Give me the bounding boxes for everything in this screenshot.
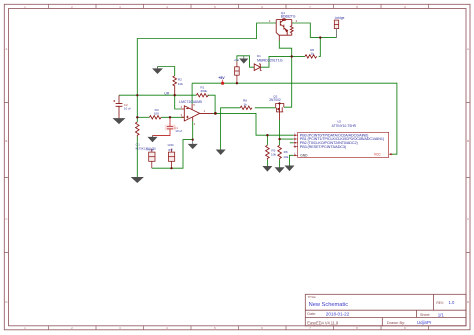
svg-text:B: B	[5, 139, 7, 143]
svg-text:-bridge: -bridge	[335, 16, 345, 20]
wire R8 to Q2 gate	[255, 107, 276, 109]
ground (backbone bottom)	[132, 178, 143, 183]
diode D1 MBRD320LT1G schottky	[254, 64, 261, 71]
svg-text:New Schematic: New Schematic	[309, 302, 349, 308]
svg-text:R6: R6	[284, 150, 288, 154]
ground (MCU GND)	[286, 166, 294, 170]
wire MCU GND pin to ground	[290, 155, 294, 166]
power flag +5V	[218, 76, 225, 85]
svg-text:1/1: 1/1	[438, 312, 445, 317]
node R5/PB0 junction	[266, 134, 268, 136]
wire Q4 collector right	[292, 23, 311, 38]
svg-text:REV:: REV:	[436, 301, 444, 305]
pad P1 (thermistor pad left)	[149, 149, 155, 169]
wire R6 right up to bridge	[319, 38, 321, 57]
svg-text:+5V: +5V	[218, 76, 225, 80]
resistor R5 10k vertical	[266, 145, 270, 160]
wire R4 to op-amp pin3	[161, 116, 184, 118]
svg-text:A: A	[467, 47, 469, 51]
node op-amp output junction	[214, 112, 217, 115]
svg-text:EasyEDA V4.11.9: EasyEDA V4.11.9	[307, 320, 339, 325]
wire MCU PB2 stub	[290, 142, 294, 144]
capacitor C1 10uf polarized (highlighted)	[165, 125, 176, 130]
wire bat connector to D1 anode and ground	[237, 56, 254, 67]
wire Q2 source down	[280, 120, 294, 139]
svg-text:TITLE:: TITLE:	[308, 295, 317, 299]
svg-text:Date:: Date:	[307, 312, 316, 316]
svg-text:LMC7101AIM5: LMC7101AIM5	[179, 100, 202, 104]
svg-text:UR: UR	[164, 92, 169, 96]
svg-text:Sheet:: Sheet:	[420, 313, 430, 317]
svg-text:1k: 1k	[244, 102, 248, 106]
svg-text:R2: R2	[178, 78, 182, 82]
node Q2 drain junction	[278, 102, 280, 104]
mcu U2 ATTINY10-TSHR	[294, 132, 393, 157]
node UR (R2/R1/pin4 junction)	[174, 94, 176, 96]
svg-text:B: B	[467, 139, 469, 143]
ground (D1 anode / bat)	[240, 56, 248, 63]
svg-text:10k: 10k	[178, 82, 183, 86]
wire R5 bottom to ground	[266, 160, 268, 167]
svg-text:UdjinPr: UdjinPr	[417, 320, 432, 325]
svg-text:GND: GND	[300, 153, 308, 157]
ground (R5)	[264, 167, 272, 171]
svg-text:ATTINY10-TSHR: ATTINY10-TSHR	[332, 124, 357, 128]
svg-text:10k: 10k	[271, 153, 276, 157]
ground (C2)	[114, 119, 124, 124]
wire backbone mid (to R3)	[136, 95, 138, 122]
resistor R2 10k vertical	[173, 76, 177, 96]
svg-text:VCC: VCC	[374, 152, 381, 156]
svg-text:A: A	[5, 47, 7, 51]
transistor Q2 2N7002 mosfet	[276, 104, 284, 121]
node pin3/C1 junction	[169, 116, 171, 118]
ground (R6b)	[276, 168, 284, 172]
wire +5V rail to MCU VCC	[192, 83, 397, 154]
svg-text:+bat: +bat	[234, 59, 239, 62]
wire R1 right feedback	[208, 95, 216, 113]
wire R6b bottom to ground	[279, 160, 281, 168]
svg-text:Drawn By:: Drawn By:	[387, 320, 405, 325]
wire op-amp pin2 to gnd pads	[152, 121, 193, 168]
resistor R1 300k horizontal	[196, 94, 208, 97]
wire R2 top to ground branch	[158, 67, 175, 76]
resistor R8 1k horizontal	[240, 106, 252, 109]
wire R6b top lead	[279, 139, 281, 145]
net label UR	[164, 92, 169, 96]
node +5V rail / bat junction	[236, 82, 238, 84]
wire D1 cathode to R6	[261, 56, 306, 67]
svg-text:100: 100	[154, 112, 159, 116]
wire op-amp pin5 riser	[191, 83, 193, 104]
resistor R3 vertical on backbone	[136, 122, 140, 137]
wire R4 left lead	[137, 116, 149, 118]
op-amp U1 LMC7101AIM5	[181, 104, 213, 121]
connector -bridge	[334, 20, 338, 37]
node backbone/R4 junction	[136, 116, 138, 118]
node pad ground junction	[170, 167, 172, 169]
wire op-amp output to MCU PB0	[213, 113, 294, 135]
ground (R2 top)	[153, 67, 162, 74]
ground (gate resistor R8)	[217, 150, 225, 154]
node bridge connector junction	[319, 36, 321, 38]
wire junction to bridge connector	[310, 37, 336, 39]
svg-text:1k: 1k	[311, 51, 315, 55]
pad labels overlapping	[136, 143, 174, 152]
resistor R6 1k horizontal top	[305, 55, 317, 58]
ground (C1)	[148, 136, 156, 142]
wire UR horizontal	[119, 94, 196, 96]
connector -bat	[235, 61, 240, 83]
ground (op-amp pin2)	[189, 140, 197, 149]
svg-text:MBRD320LT1G: MBRD320LT1G	[257, 58, 283, 62]
svg-text:10k: 10k	[283, 155, 288, 159]
node Q2 source/R6/PB1 junction	[278, 138, 280, 140]
svg-text:BD682TG: BD682TG	[281, 15, 296, 19]
node op-amp pin2 ground junction	[192, 139, 194, 141]
wire backbone top to Q4 base	[137, 23, 276, 95]
svg-text:2018-01-22: 2018-01-22	[326, 311, 350, 316]
svg-text:PB3 (RESET/PCINT3/ADC3): PB3 (RESET/PCINT3/ADC3)	[300, 145, 347, 149]
wire R5 top lead	[266, 135, 268, 145]
svg-text:300k: 300k	[200, 89, 207, 93]
node backbone/UR junction	[136, 94, 138, 96]
svg-text:2N7002: 2N7002	[269, 98, 281, 102]
wire op-amp pin4 drop	[175, 95, 181, 109]
svg-text:D1: D1	[257, 54, 261, 58]
svg-text:1.0: 1.0	[449, 300, 455, 305]
wire Q4 emitter down to Q2	[279, 41, 291, 108]
pad P2 (gnd pad right)	[168, 149, 174, 169]
resistor R6 10k vertical	[278, 145, 282, 160]
svg-text:GND: GND	[168, 143, 174, 147]
wire backbone bottom (R3 to ground)	[136, 137, 138, 178]
resistor R4 100 horizontal	[149, 116, 161, 119]
capacitor C2 10uf polarized	[113, 95, 122, 118]
svg-text:bridge: bridge	[147, 148, 155, 152]
svg-text:10 uf: 10 uf	[175, 129, 182, 133]
wire gate net R8 to ground	[221, 108, 241, 150]
transistor Q4 BD682TG darlington	[276, 19, 293, 41]
svg-text:C.1: C.1	[136, 143, 141, 147]
svg-text:gnd: gnd	[168, 147, 173, 151]
svg-text:10 uf: 10 uf	[124, 106, 131, 110]
node D1 cathode / Q4 emitter junction	[291, 55, 293, 57]
